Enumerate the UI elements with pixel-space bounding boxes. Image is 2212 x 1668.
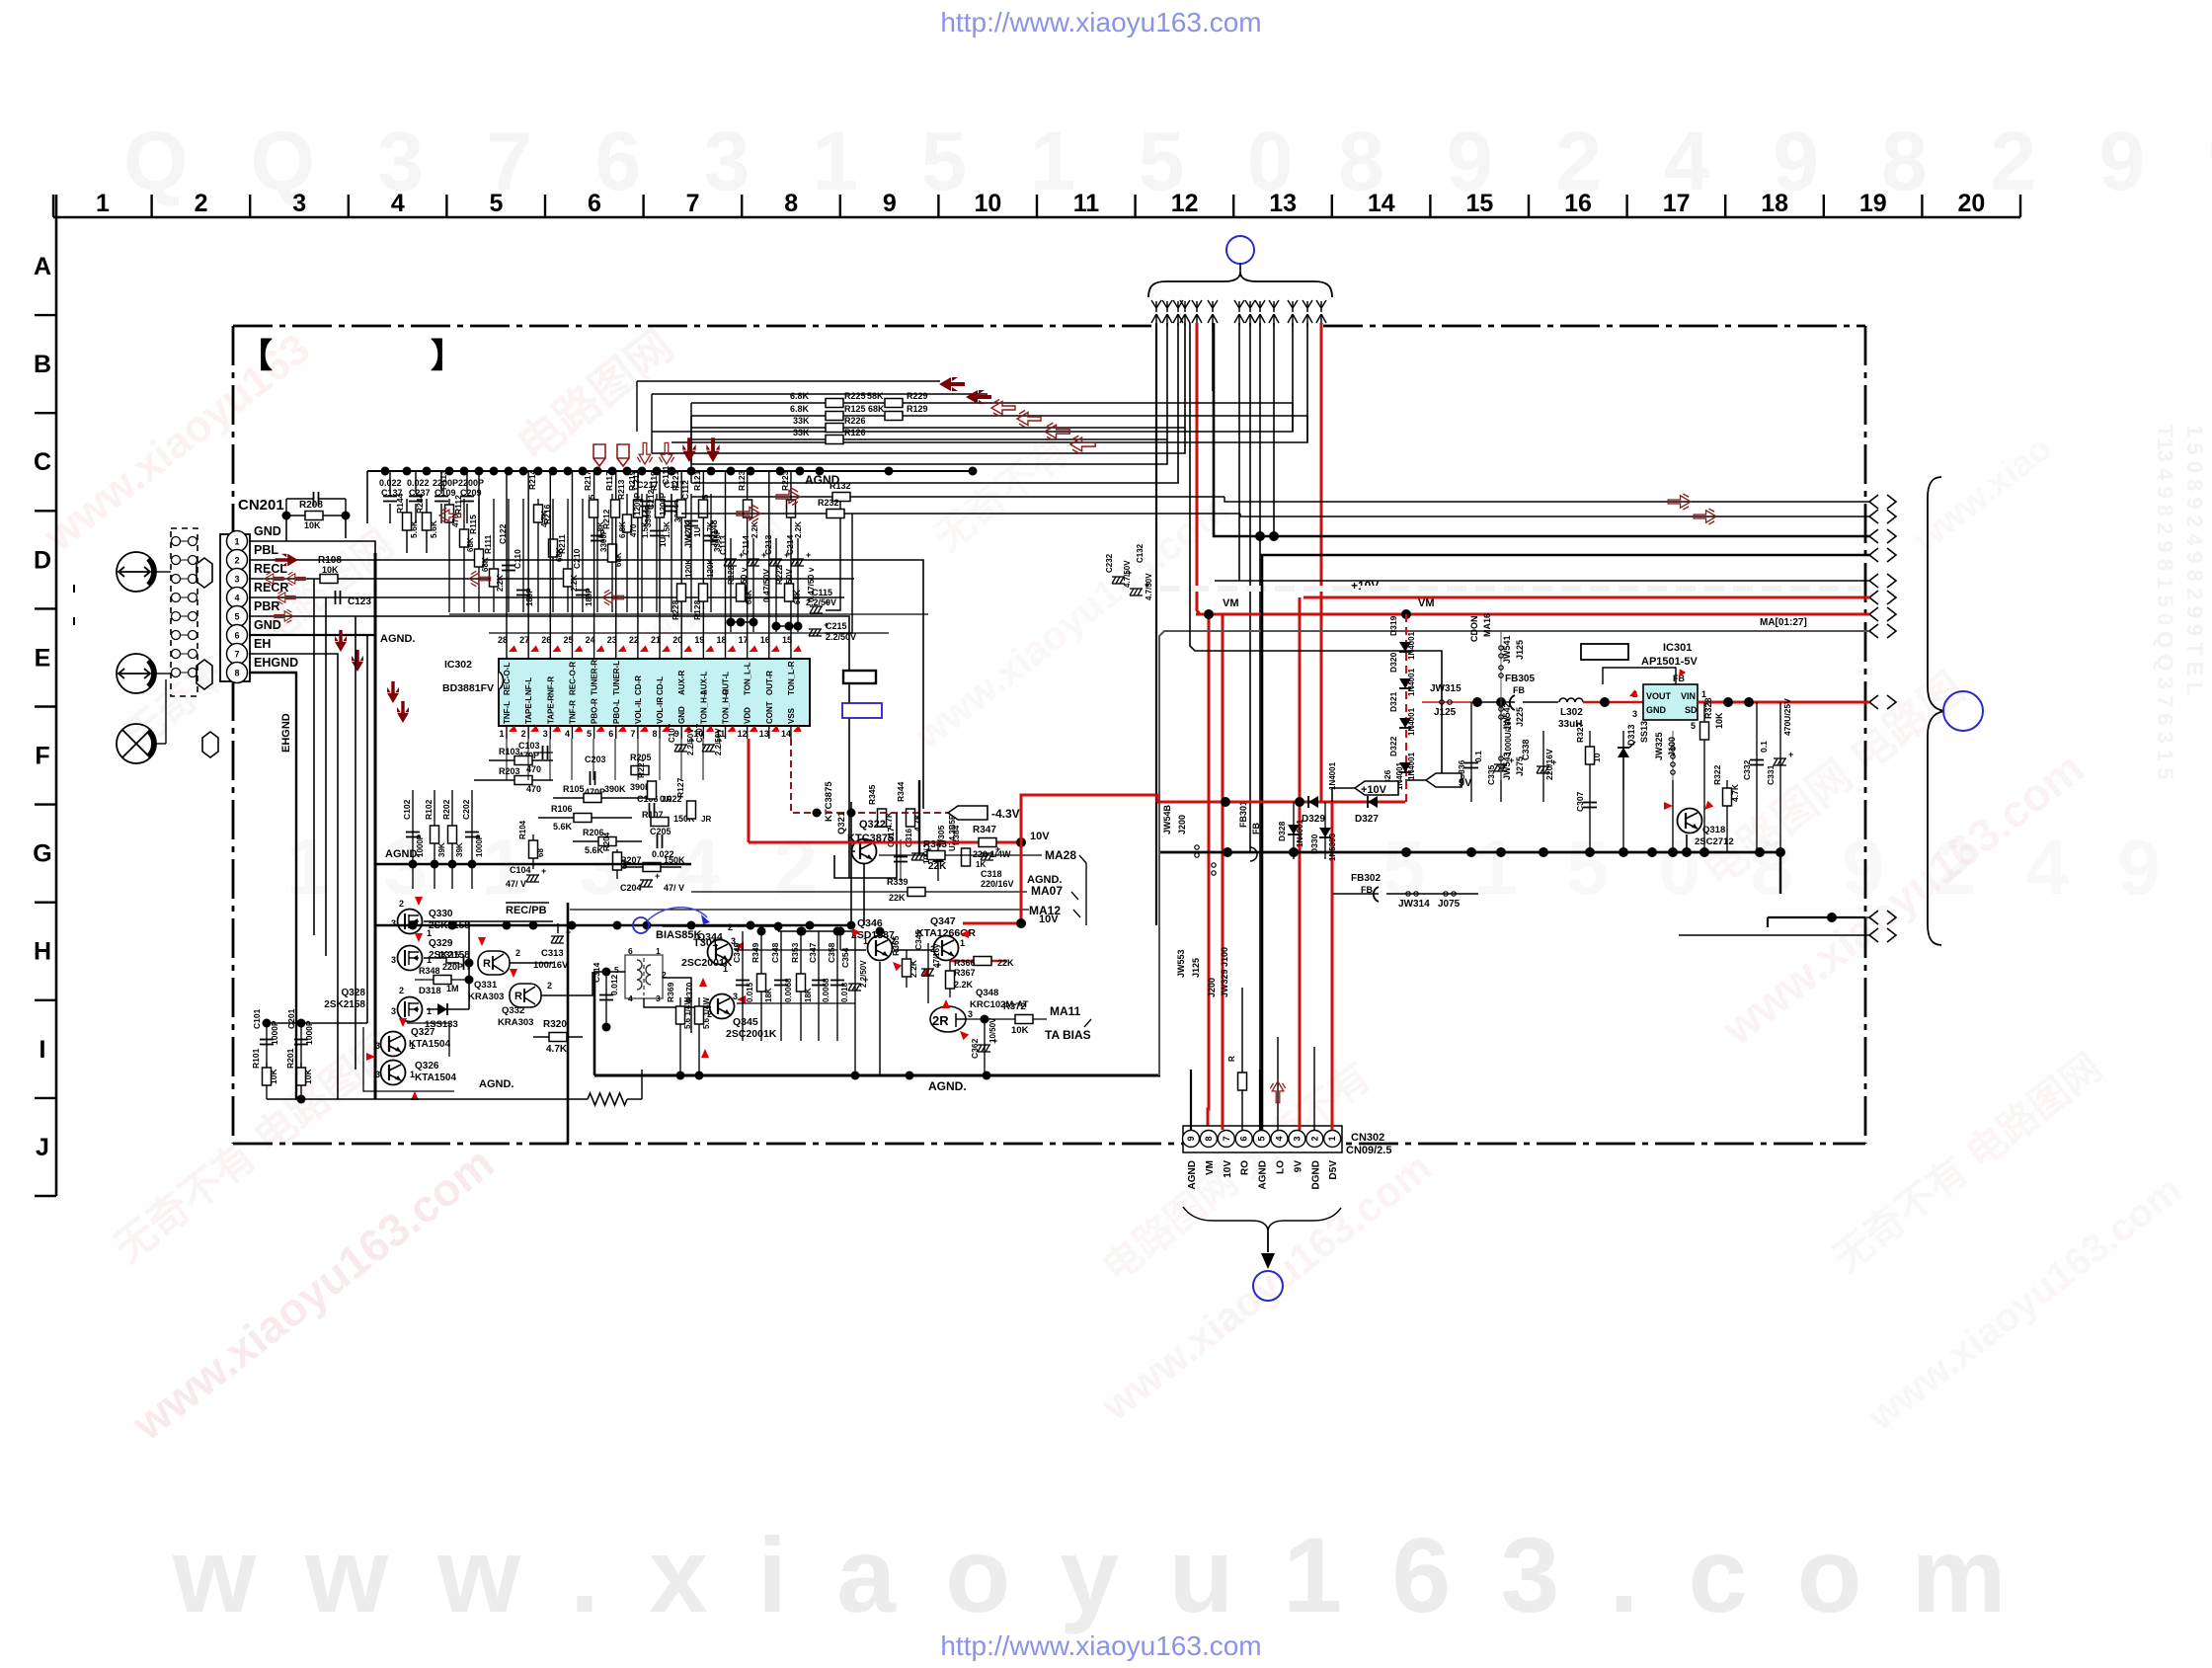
svg-text:1000P: 1000P [270, 1020, 279, 1045]
CN302 pin 5 AGND [1253, 1131, 1270, 1148]
svg-text:68K: 68K [793, 590, 802, 604]
red riser from 10V node [1021, 795, 1157, 842]
svg-text:w w w . x i a o y u 1 6 3 . c: w w w . x i a o y u 1 6 3 . c o m [172, 1515, 2016, 1634]
zener D305 [932, 852, 944, 862]
svg-text:3: 3 [1292, 1136, 1302, 1141]
svg-text:8: 8 [1204, 1136, 1214, 1141]
svg-text:R344: R344 [896, 781, 906, 802]
cap C104 electrolytic [526, 875, 539, 882]
IC302 top pin 17 TON_L-L [747, 647, 749, 659]
wire FB up [1603, 668, 1676, 684]
svg-text:PBL: PBL [254, 543, 278, 557]
IC302 bottom pin 4 TNF-R [571, 726, 573, 739]
arrow on PBR [275, 609, 293, 623]
svg-text:R365: R365 [891, 935, 901, 956]
svg-text:R211: R211 [557, 534, 567, 554]
svg-text:2.2K: 2.2K [794, 521, 803, 538]
wire stem from circle to brace [1239, 264, 1241, 273]
svg-text:C101: C101 [252, 1008, 262, 1029]
svg-text:A: A [34, 253, 51, 280]
svg-text:KTC3875: KTC3875 [824, 781, 834, 822]
svg-text:J200: J200 [1177, 815, 1187, 834]
top rail of middle block [778, 930, 855, 932]
capacitor above R208 [313, 492, 315, 506]
svg-text:JR: JR [701, 815, 711, 824]
svg-text:R111: R111 [483, 534, 493, 554]
capacitor C106 0.022 [649, 803, 651, 817]
svg-text:D319: D319 [1388, 615, 1398, 636]
svg-text:-4.3V: -4.3V [991, 807, 1020, 821]
wire Q348 to MA11 [966, 1018, 1047, 1020]
transistor Q347 KTA1266GR [934, 936, 959, 961]
CN201 pin 3 RECL [227, 569, 248, 590]
capacitor C335 1000U/16V [1500, 702, 1502, 802]
svg-text:D: D [34, 546, 51, 574]
svg-text:C331: C331 [1766, 764, 1776, 785]
svg-text:Q322: Q322 [859, 819, 886, 831]
svg-text:18: 18 [716, 635, 726, 645]
svg-text:R343: R343 [923, 839, 947, 850]
open arrows scattered left cluster [439, 508, 461, 522]
svg-text:R222: R222 [775, 565, 784, 585]
IC302 bottom pin 5 PBO-R [593, 726, 595, 739]
svg-text:TON_L-L: TON_L-L [744, 662, 752, 695]
wire bias to Q344 [663, 925, 778, 927]
svg-text:220/16V: 220/16V [1544, 749, 1554, 780]
svg-text:1: 1 [723, 964, 728, 974]
svg-text:C201: C201 [286, 1008, 296, 1029]
diode D320 1N4001 [1399, 678, 1411, 688]
svg-text:10/50V: 10/50V [988, 1017, 997, 1043]
svg-text:1200P: 1200P [659, 492, 668, 516]
svg-text:1 5 0 8 9 2 4 9 8 2 9 9 T E: 1 5 0 8 9 2 4 9 8 2 9 9 T E L [2182, 425, 2207, 695]
svg-text:17: 17 [1663, 190, 1691, 217]
svg-text:R217: R217 [583, 470, 592, 491]
svg-text:8: 8 [234, 669, 239, 678]
svg-text:26: 26 [541, 635, 551, 645]
svg-text:TA BIAS: TA BIAS [1045, 1028, 1091, 1042]
svg-text:R132: R132 [829, 481, 851, 491]
transistor Q318 2SC2712 [1678, 809, 1702, 834]
svg-text:R204: R204 [602, 832, 611, 851]
ladder cross buses [449, 613, 928, 615]
svg-text:100/16V: 100/16V [533, 960, 569, 971]
svg-text:2: 2 [728, 922, 733, 932]
svg-text:FB: FB [1251, 823, 1261, 834]
black bus y863 [1160, 851, 1780, 854]
plug symbol 3 [202, 732, 218, 757]
svg-text:11: 11 [1073, 190, 1100, 217]
svg-text:33K: 33K [793, 428, 810, 437]
IC302 top pin 18 OUT-L [725, 647, 727, 659]
jumper chain JW541 J125 [1500, 632, 1502, 691]
svg-text:1K: 1K [976, 860, 986, 869]
black thin rail y588 [1215, 580, 1865, 582]
svg-text:C102: C102 [402, 799, 412, 820]
svg-text:D328: D328 [1277, 821, 1287, 841]
transistor Q328 2SK2158 [398, 997, 423, 1022]
svg-text:R201: R201 [285, 1048, 295, 1069]
svg-text:1000P: 1000P [304, 1020, 314, 1045]
IC302 top pin 20 AUX-R [680, 647, 682, 659]
svg-text:AGND: AGND [1258, 1160, 1269, 1189]
svg-text:0.0068: 0.0068 [822, 978, 830, 1002]
svg-text:T13 4 9 8 2 9 8 1 5 0 Q Q 3 7: T13 4 9 8 2 9 8 1 5 0 Q Q 3 7 6 3 1 5 [2153, 425, 2177, 780]
svg-text:VM: VM [1418, 597, 1435, 609]
svg-text:http://www.xiaoyu163.com: http://www.xiaoyu163.com [940, 1630, 1261, 1661]
svg-text:VOL-IR: VOL-IR [656, 697, 665, 724]
svg-text:3: 3 [1632, 709, 1637, 719]
resistor R108 [320, 575, 338, 584]
svg-text:R106: R106 [551, 804, 573, 814]
svg-text:47/ V: 47/ V [506, 879, 526, 889]
CN201 pin 5 PBR [227, 606, 248, 627]
left top net wires [366, 471, 368, 523]
capacitor C201 1000P [300, 1023, 302, 1071]
IC302 top pin 16 OUT-R [768, 647, 770, 659]
svg-text:2.2K: 2.2K [908, 959, 918, 978]
svg-text:R223: R223 [780, 470, 790, 491]
svg-text:EH: EH [254, 637, 271, 651]
svg-text:R226: R226 [844, 416, 866, 426]
svg-text:470: 470 [629, 523, 638, 537]
CN302 pin 8 VM [1200, 1131, 1217, 1148]
svg-text:2200P: 2200P [458, 478, 484, 488]
svg-text:68K: 68K [481, 557, 490, 572]
svg-text:2.2/50V: 2.2/50V [806, 597, 836, 607]
CN302 pin 1 D5V [1324, 1131, 1341, 1148]
wire from bus down [850, 802, 852, 925]
svg-text:2.2/50V: 2.2/50V [859, 960, 868, 988]
thick rail y562 with corner down [1262, 555, 1865, 1130]
svg-text:1N4001: 1N4001 [1407, 752, 1416, 780]
red VIN to right [1698, 701, 1865, 704]
svg-text:R203: R203 [499, 766, 520, 776]
svg-text:TON_H-L: TON_H-L [699, 689, 708, 724]
svg-text:KRA303: KRA303 [468, 992, 504, 1002]
svg-text:2: 2 [1309, 1136, 1319, 1141]
svg-text:C213: C213 [763, 534, 773, 555]
svg-text:6: 6 [588, 190, 601, 217]
svg-text:2: 2 [521, 729, 526, 739]
svg-text:Q332: Q332 [502, 1005, 524, 1016]
IC302 bottom pin 14 VSS [790, 726, 792, 739]
svg-text:AGND.: AGND. [380, 633, 415, 645]
cap C316 [911, 853, 924, 860]
svg-text:JW541: JW541 [1502, 635, 1512, 664]
red wire 10V row Q322 [749, 841, 1021, 844]
wire bundle vertical 8 [1249, 323, 1251, 852]
svg-text:TON_L-R: TON_L-R [787, 661, 796, 695]
CN201 pin 8 EHGND [227, 663, 248, 683]
ruler left ticks [35, 314, 56, 316]
svg-text:10: 10 [974, 190, 1001, 217]
IC302 bottom pin 12 VDD [747, 726, 749, 739]
svg-text:Q347: Q347 [930, 915, 956, 927]
resistor R106 5.6K [538, 817, 632, 819]
white box small right [1581, 644, 1628, 660]
caps C232 C132 [1112, 577, 1125, 584]
svg-text:R128: R128 [692, 599, 702, 620]
svg-text:47/ V: 47/ V [664, 883, 684, 893]
CN201 pin 2 PBL [227, 550, 248, 571]
svg-text:CD-R: CD-R [634, 675, 643, 695]
svg-text:6.8K: 6.8K [790, 391, 810, 401]
svg-text:JW54B: JW54B [1162, 804, 1172, 834]
svg-text:4.7K: 4.7K [912, 813, 922, 832]
svg-text:R320: R320 [543, 1019, 567, 1030]
svg-text:GND: GND [254, 618, 281, 632]
right edge connector pairs top group [1869, 495, 1896, 509]
svg-text:R228: R228 [671, 599, 680, 620]
svg-text:PBO-L: PBO-L [612, 699, 621, 724]
svg-text:R206: R206 [583, 828, 604, 837]
svg-text:C332: C332 [1742, 759, 1752, 780]
svg-text:R339: R339 [887, 877, 908, 887]
svg-text:2.2/50V: 2.2/50V [686, 728, 695, 755]
svg-text:JW202: JW202 [683, 519, 693, 548]
labels JW314 J075 [1406, 892, 1410, 896]
svg-text:1 3 1 3 4 2: 1 3 1 3 4 2 [286, 823, 833, 911]
thick vertical buses x575 x602 [567, 903, 570, 1144]
resistor R101 10K [266, 1063, 268, 1099]
svg-text:R101: R101 [251, 1048, 261, 1069]
svg-text:0.015: 0.015 [746, 982, 754, 1002]
svg-text:C114: C114 [741, 535, 750, 555]
svg-text:470: 470 [526, 784, 541, 794]
svg-text:R225: R225 [844, 391, 866, 401]
svg-text:2: 2 [195, 190, 208, 217]
resistor R208 [286, 515, 346, 516]
svg-text:JW542: JW542 [1502, 702, 1512, 731]
gray MA bus [1159, 631, 1865, 1075]
svg-text:2.2K: 2.2K [570, 575, 579, 592]
inductor L302 33uH [1523, 701, 1558, 703]
svg-text:R127: R127 [675, 777, 685, 798]
svg-text:R353: R353 [790, 942, 800, 963]
svg-text:E: E [35, 644, 51, 672]
svg-text:6: 6 [608, 729, 613, 739]
svg-text:C349: C349 [732, 942, 742, 963]
svg-text:2: 2 [399, 899, 404, 909]
svg-text:JW543: JW543 [1502, 752, 1512, 780]
cap C345 47/16V [927, 943, 929, 1003]
connector CN302 body [1183, 1126, 1342, 1152]
svg-text:+: + [541, 866, 546, 876]
svg-text:1000P: 1000P [475, 834, 484, 857]
svg-text:CN201: CN201 [238, 497, 284, 514]
svg-text:22: 22 [629, 635, 639, 645]
arrows on RECL [265, 572, 283, 586]
svg-text:J125: J125 [1515, 640, 1525, 660]
diode D322 1N4001 [1399, 762, 1411, 772]
svg-text:NF-L: NF-L [524, 677, 533, 695]
svg-text:REC/PB: REC/PB [506, 905, 547, 916]
CN302 brace below [1183, 1207, 1341, 1231]
jumper JW542 J225 [1500, 691, 1502, 731]
svg-text:REC-O-L: REC-O-L [503, 663, 512, 695]
IC302 bottom pin 1 TNF-L [506, 726, 508, 739]
arrow on PBL [276, 554, 298, 567]
svg-text:10K: 10K [303, 1069, 313, 1084]
svg-text:GND: GND [677, 706, 686, 724]
zener D313 SS13 [1622, 731, 1624, 790]
red VM rail [1196, 613, 1865, 616]
svg-text:18K: 18K [804, 988, 813, 1002]
svg-text:8: 8 [653, 729, 658, 739]
svg-text:TUNER-R: TUNER-R [591, 660, 599, 695]
svg-text:3: 3 [375, 1041, 380, 1051]
wire bundle vertical 7 [1238, 323, 1240, 581]
svg-text:C104: C104 [510, 865, 531, 875]
resistor R206 5.6K [573, 840, 642, 842]
red wire VDD down [748, 739, 750, 842]
svg-text:470: 470 [451, 514, 460, 527]
svg-text:3: 3 [391, 918, 396, 928]
solid dark red arrows top [939, 377, 965, 391]
mid rail connections [735, 949, 743, 951]
resistor R207 150K [612, 866, 681, 868]
resistor R127 JR [687, 801, 696, 819]
IC302 top pin 22 CD-R [637, 647, 639, 659]
svg-text:Q345: Q345 [733, 1016, 758, 1028]
border box top edge [233, 325, 1151, 328]
svg-text:0.1: 0.1 [1473, 751, 1483, 762]
svg-text:FB302: FB302 [1351, 873, 1381, 884]
CN201 contact dashed box [171, 528, 197, 696]
svg-text:J275: J275 [1515, 756, 1525, 776]
svg-text:6: 6 [234, 631, 239, 641]
jumper JW315 J125 [1422, 701, 1477, 703]
svg-text:1: 1 [410, 1041, 415, 1051]
svg-text:5: 5 [489, 190, 503, 217]
svg-text:C358: C358 [827, 942, 836, 963]
svg-text:TNF-R: TNF-R [568, 700, 577, 724]
svg-text:1: 1 [960, 938, 965, 948]
svg-text:1200P: 1200P [633, 492, 642, 516]
svg-text:33K: 33K [793, 416, 810, 426]
svg-text:+: + [806, 550, 811, 560]
capacitor C205 0.022 [657, 834, 659, 848]
svg-text:R219: R219 [627, 470, 637, 491]
svg-text:1: 1 [1327, 1136, 1337, 1141]
ruler top ticks [52, 195, 54, 217]
resistor R327 10 [1589, 731, 1591, 790]
svg-text:1N5393: 1N5393 [1328, 833, 1337, 861]
transistor Q329 2SK2158 [398, 946, 423, 971]
IC302 bottom pin 7 VOL-IL [637, 726, 639, 739]
zigzag resistor bottom [588, 1093, 627, 1105]
svg-text:KTA1504: KTA1504 [415, 1072, 456, 1083]
transistor Q330 2SK2158 [398, 910, 423, 934]
rail y659 corner [1190, 323, 1442, 773]
svg-text:3: 3 [543, 729, 548, 739]
svg-text:22K: 22K [997, 958, 1014, 968]
wire bundle vertical 11 [652, 323, 1293, 432]
svg-text:1M: 1M [446, 984, 459, 993]
svg-text:BD3881FV: BD3881FV [442, 682, 494, 694]
svg-text:1: 1 [427, 928, 432, 938]
wires Q331 Q332 [510, 962, 553, 964]
svg-text:F: F [35, 743, 49, 770]
svg-text:R347: R347 [973, 825, 996, 835]
svg-text:CDON: CDON [1469, 616, 1479, 643]
svg-text:6: 6 [1239, 1136, 1249, 1141]
svg-text:2SK2158: 2SK2158 [324, 999, 365, 1010]
wire bottom left y1113 [267, 1098, 588, 1100]
transistor Q332 KRA303 digital [510, 984, 541, 1007]
left vertical bus wires [313, 579, 315, 935]
IC302 top pin 15 TON_L-R [790, 647, 792, 659]
arrows above AGND bus [593, 444, 605, 466]
svg-text:R: R [1227, 1056, 1236, 1062]
wire GND pin1 [249, 541, 375, 553]
svg-text:D330: D330 [1309, 834, 1319, 854]
svg-text:220 1/4W: 220 1/4W [973, 849, 1011, 859]
brace over top bundle [1148, 273, 1332, 297]
svg-text:REC-O-R: REC-O-R [568, 662, 577, 695]
svg-text:180P: 180P [585, 588, 593, 606]
svg-text:J125: J125 [1191, 958, 1201, 978]
resistor row R226 [691, 427, 1071, 429]
svg-text:2.2K: 2.2K [954, 980, 974, 990]
svg-text:DGND: DGND [1310, 1160, 1321, 1189]
svg-text:9V: 9V [1293, 1160, 1303, 1173]
svg-text:5.6K: 5.6K [585, 845, 604, 855]
svg-text:JW553: JW553 [1176, 949, 1186, 978]
svg-text:0.018: 0.018 [840, 982, 849, 1002]
svg-text:15: 15 [782, 635, 792, 645]
regulator IC301 [1643, 684, 1698, 720]
svg-text:27: 27 [519, 635, 529, 645]
svg-text:2SC2001K: 2SC2001K [726, 1028, 777, 1040]
svg-text:390K: 390K [604, 784, 626, 794]
small cluster R113 R112 R115 R111 C122 C110 [448, 499, 450, 612]
svg-text:TUNER-L: TUNER-L [612, 661, 621, 695]
wire bundle vertical 13 (red) [1320, 323, 1323, 802]
top wire rows to bundle [637, 380, 940, 382]
AGND thick vertical bus [374, 553, 377, 1099]
svg-text:5: 5 [1257, 1136, 1267, 1141]
plug symbol 1 [197, 558, 212, 588]
thick corner x931 [918, 780, 920, 855]
svg-text:28: 28 [498, 635, 508, 645]
cap C318 [981, 853, 993, 860]
svg-text:CN302: CN302 [1351, 1132, 1384, 1144]
svg-text:1N4001: 1N4001 [1407, 631, 1416, 660]
bus stub down to FB302 line [1779, 852, 1781, 894]
wire bundle vertical 1 [1155, 323, 1157, 925]
svg-text:10K: 10K [322, 565, 339, 575]
svg-text:G: G [33, 840, 51, 868]
CN201 pin 4 RECR [227, 588, 248, 608]
transistor Q327 KTA1504 [381, 1032, 406, 1057]
svg-text:Q330: Q330 [429, 909, 453, 919]
svg-text:1: 1 [863, 936, 868, 946]
svg-text:8: 8 [784, 190, 798, 217]
cap C354 electrolytic [854, 931, 856, 1072]
wires Q33x block [468, 921, 470, 1009]
node link blue wire [633, 917, 649, 933]
svg-text:L302: L302 [1560, 707, 1583, 718]
mid wires R132 R232 [691, 496, 1224, 498]
svg-text:VDD: VDD [744, 707, 752, 724]
svg-text:1: 1 [96, 190, 110, 217]
svg-text:2: 2 [234, 556, 239, 566]
svg-text:9: 9 [1186, 1136, 1196, 1141]
svg-text:47/16y: 47/16y [932, 943, 941, 968]
svg-text:C232: C232 [1105, 553, 1114, 573]
